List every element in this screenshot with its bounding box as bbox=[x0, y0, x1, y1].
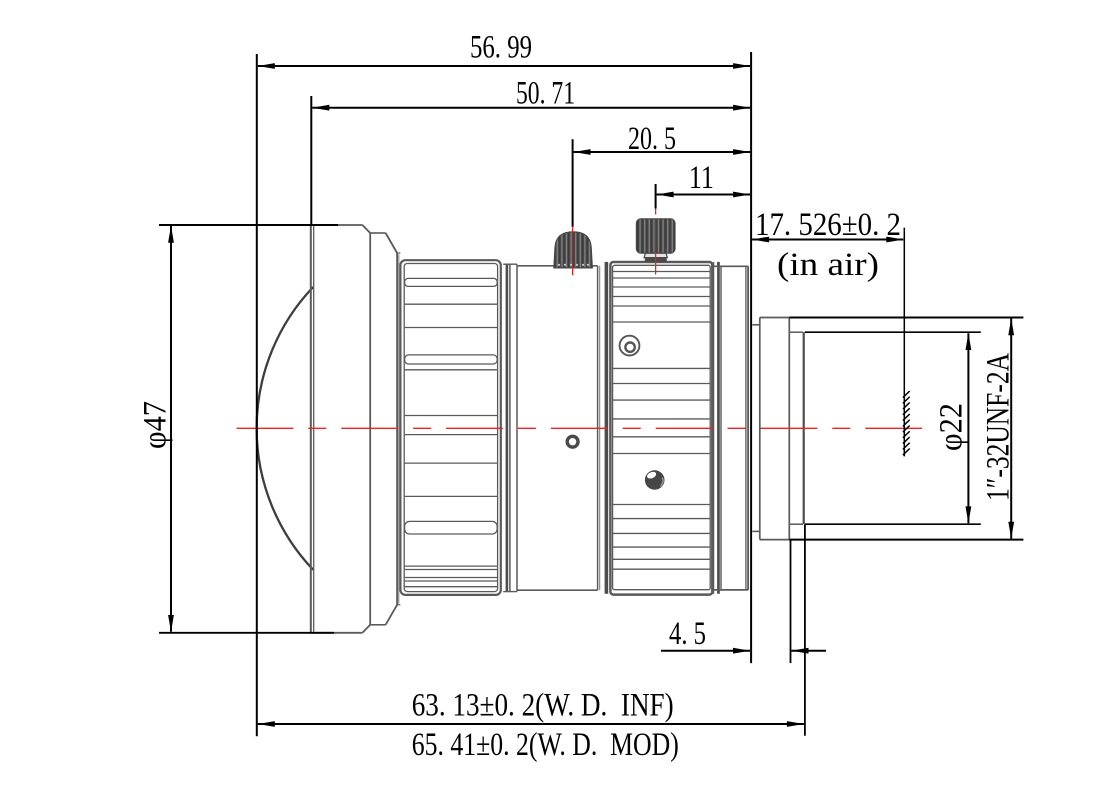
dark groove band before ring 2 bbox=[605, 262, 609, 594]
cone ring top edge bbox=[370, 232, 385, 234]
thread minor diameter extension lines bbox=[805, 331, 981, 333]
spacer ring rear line bbox=[516, 264, 518, 591]
thread runout band bbox=[803, 332, 805, 524]
image plane hatch bbox=[903, 391, 910, 455]
cone ring top chamfer bbox=[386, 233, 398, 253]
dimension 17.526 (in air) bbox=[752, 207, 903, 283]
focus ring knurl lines bbox=[405, 304, 498, 587]
dimension 11 bbox=[657, 160, 751, 197]
spacer ring bottom edge bbox=[503, 591, 517, 593]
optical axis centerline (red) bbox=[237, 427, 923, 429]
groove band after focus ring bbox=[506, 264, 509, 591]
neck bottom edge bbox=[752, 530, 760, 532]
main barrel bottom edge bbox=[517, 589, 598, 591]
dimension 56.99 bbox=[258, 30, 750, 69]
spacer ring front line bbox=[509, 264, 511, 591]
front bezel bottom edge bbox=[310, 632, 362, 634]
focus ring (knurled ring 1) outline bbox=[400, 260, 500, 595]
extension line 4.5 right bbox=[790, 541, 792, 664]
focus ring knurl band a bbox=[405, 278, 498, 286]
spacer ring top edge bbox=[503, 263, 517, 265]
rear junction lines bbox=[713, 262, 715, 594]
cone ring bottom edge bbox=[370, 624, 385, 626]
thread barrel bottom lead bbox=[789, 523, 803, 525]
thread barrel top lead bbox=[789, 331, 803, 333]
cone ring rear face bbox=[396, 253, 398, 605]
cone ring bottom chamfer bbox=[386, 605, 398, 625]
rear flange face bbox=[745, 266, 747, 590]
dimension 50.71 bbox=[312, 75, 750, 111]
iris ring screw (double circle) bbox=[620, 336, 640, 356]
front bezel top chamfer bbox=[362, 225, 370, 233]
svg-text:φ22: φ22 bbox=[934, 403, 970, 451]
iris ring (knurled ring 2) outline bbox=[610, 262, 712, 595]
svg-text:65. 41±0. 2(W. D. MOD): 65. 41±0. 2(W. D. MOD) bbox=[412, 727, 679, 763]
front bezel bottom chamfer bbox=[362, 625, 370, 633]
dimension 63.13 / 65.41 W.D. bbox=[258, 687, 804, 763]
svg-text:20. 5: 20. 5 bbox=[628, 121, 676, 157]
iris screw centerline tick (red) bbox=[655, 209, 657, 215]
neck top edge bbox=[752, 324, 760, 326]
svg-text:50. 71: 50. 71 bbox=[516, 75, 575, 111]
extension line bezel front bbox=[310, 96, 312, 226]
svg-text:φ47: φ47 bbox=[138, 401, 174, 449]
barrel screw hole bbox=[567, 436, 578, 447]
dimension phi47 bbox=[138, 226, 174, 632]
extension line left (front vertex) bbox=[256, 54, 258, 736]
focus lock thumbscrew bbox=[554, 232, 592, 268]
extension line rear flange bbox=[750, 52, 752, 663]
main barrel top edge bbox=[517, 265, 598, 267]
phi47 extension lines bbox=[159, 224, 338, 226]
front bezel rear face bbox=[369, 233, 371, 625]
svg-text:1″-32UNF-2A: 1″-32UNF-2A bbox=[981, 353, 1017, 501]
front bezel rim face bbox=[310, 225, 312, 633]
focus screw centerline tick (red) bbox=[572, 227, 574, 233]
svg-text:(in air): (in air) bbox=[777, 247, 879, 283]
lens body outline group bbox=[257, 225, 805, 633]
spacer sliver line bbox=[398, 254, 400, 603]
extension line iris screw bbox=[655, 184, 657, 209]
dimension 20.5 bbox=[574, 121, 751, 157]
rear ring top edge bbox=[714, 265, 749, 267]
front glass dome bbox=[257, 287, 314, 570]
extension line focus screw bbox=[572, 139, 574, 226]
svg-text:11: 11 bbox=[689, 160, 714, 196]
iris ring ball screw bbox=[645, 470, 665, 490]
extension line W.D. right bbox=[804, 525, 806, 736]
focus ring knurl band b bbox=[405, 355, 498, 364]
dimension 4.5 bbox=[661, 616, 826, 654]
svg-text:63. 13±0. 2(W. D. INF): 63. 13±0. 2(W. D. INF) bbox=[412, 687, 674, 723]
rear ring bottom edge bbox=[714, 589, 749, 591]
svg-text:56. 99: 56. 99 bbox=[470, 30, 532, 66]
svg-text:4. 5: 4. 5 bbox=[669, 616, 706, 652]
svg-text:17. 526±0. 2: 17. 526±0. 2 bbox=[755, 207, 901, 243]
thread major diameter extension lines bbox=[789, 317, 1023, 319]
iris lock thumbscrew bbox=[636, 219, 675, 262]
image plane line bbox=[903, 228, 905, 457]
main barrel rear face bbox=[597, 266, 599, 590]
spacer top edge bbox=[397, 252, 400, 254]
iris ring knurl lines bbox=[613, 272, 711, 570]
dimension 1inch-32UNF-2A bbox=[981, 318, 1017, 539]
mount flange ring bbox=[759, 318, 761, 540]
front bezel top edge bbox=[310, 224, 362, 226]
focus ring knurl band c bbox=[405, 521, 498, 534]
dimension phi22 bbox=[934, 333, 972, 523]
